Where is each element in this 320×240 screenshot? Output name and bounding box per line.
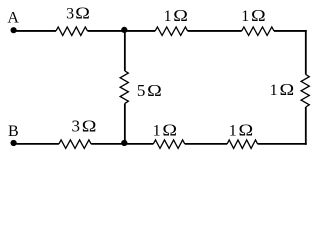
svg-text:3: 3 xyxy=(66,5,74,22)
resistor R4 1 ohm right vertical xyxy=(301,75,309,108)
wire R2 to R3 xyxy=(188,30,242,32)
wire R1 to node C xyxy=(88,30,156,32)
resistor R5 3 ohm bottom-left xyxy=(59,140,91,149)
svg-text:B: B xyxy=(8,123,19,140)
svg-text:1: 1 xyxy=(164,8,172,25)
svg-text:1: 1 xyxy=(229,122,237,139)
resistor R6 1 ohm bottom-middle xyxy=(153,140,185,149)
wire terminal A to R1 xyxy=(13,30,56,32)
wire R8 down to node D xyxy=(124,103,126,143)
resistor R8 5 ohm middle vertical xyxy=(120,71,128,104)
svg-text:Ω: Ω xyxy=(173,6,188,24)
svg-text:1: 1 xyxy=(270,82,278,99)
resistor R1 3 ohm top-left xyxy=(56,27,88,36)
svg-text:Ω: Ω xyxy=(280,80,295,98)
svg-text:3: 3 xyxy=(72,116,81,135)
svg-text:1: 1 xyxy=(241,8,249,25)
svg-text:A: A xyxy=(7,10,19,27)
wire node C down to R8 xyxy=(124,31,126,71)
resistor R7 1 ohm bottom-right xyxy=(227,140,258,149)
junction dot node D xyxy=(121,140,127,146)
svg-text:5: 5 xyxy=(137,81,146,100)
wire R3 to top-right corner xyxy=(274,30,307,32)
terminal dot A xyxy=(11,27,17,33)
svg-text:Ω: Ω xyxy=(82,117,97,135)
wire R6 to R7 xyxy=(185,143,227,145)
svg-text:Ω: Ω xyxy=(75,4,90,22)
resistor R2 1 ohm top-middle xyxy=(155,27,187,36)
svg-text:Ω: Ω xyxy=(162,121,177,139)
wire to bottom-right corner xyxy=(305,107,307,145)
wire terminal B to R5 xyxy=(13,143,59,145)
svg-text:Ω: Ω xyxy=(147,81,162,99)
resistor R3 1 ohm top-right xyxy=(242,27,274,36)
wire down from top-right corner xyxy=(305,30,307,74)
svg-text:Ω: Ω xyxy=(251,6,266,24)
svg-text:1: 1 xyxy=(153,122,161,139)
wire R7 to bottom-right corner xyxy=(258,143,307,145)
junction dot node C xyxy=(121,27,127,33)
wire R5 to node D xyxy=(91,143,153,145)
terminal dot B xyxy=(11,140,17,146)
svg-text:Ω: Ω xyxy=(239,121,254,139)
